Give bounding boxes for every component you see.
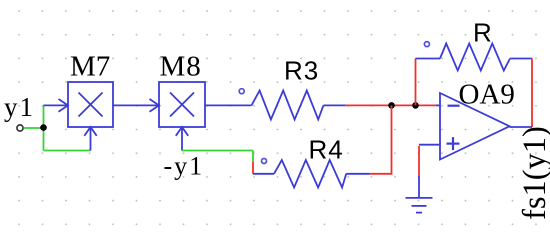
svg-text:y1: y1 — [4, 92, 35, 122]
node -y1 label — [164, 152, 205, 181]
wire junction up to M7 input level (green) — [43, 105, 45, 150]
resistor R label — [473, 18, 492, 48]
svg-text:R: R — [473, 18, 492, 48]
svg-text:R4: R4 — [309, 135, 344, 165]
junction dot at y1 — [40, 124, 47, 131]
op-amp OA9 triangle — [440, 93, 510, 160]
wire M8 output (blue) — [205, 104, 252, 106]
node y1 terminal — [17, 125, 23, 131]
wire R3 to junction (blue then red) — [323, 104, 440, 106]
wire y1 terminal to junction (green) — [24, 127, 44, 129]
node circle at R input — [424, 42, 429, 47]
wire into R (blue) — [416, 58, 441, 60]
node fs1(y1) label — [517, 126, 550, 220]
wire M7 output to M8 input (blue) — [113, 99, 159, 112]
wire feedback branch up (red) — [415, 59, 417, 106]
junction dot at feedback branch — [412, 102, 419, 109]
resistor R4 label — [309, 135, 344, 165]
resistor R (feedback) — [440, 44, 510, 71]
wire into R4 (blue) — [253, 173, 274, 175]
multiplier M7 label — [70, 51, 110, 83]
resistor R4 — [274, 160, 346, 188]
node circle at R3 input — [239, 89, 244, 94]
svg-text:fs1(y1): fs1(y1) — [517, 126, 550, 220]
M7 lower input pin arrow (bottom) — [84, 127, 96, 151]
junction dot left of op-amp — [388, 102, 395, 109]
resistor R3 label — [284, 56, 319, 86]
wire op-amp + input to ground (blue stub) — [419, 144, 440, 146]
ground — [406, 176, 433, 213]
wire -y1 branch down (green then red) — [252, 151, 254, 174]
svg-text:-y1: -y1 — [164, 152, 205, 181]
op-amp OA9 label — [459, 79, 515, 111]
node circle at R4 input — [262, 159, 267, 164]
multiplier M8 label — [160, 51, 202, 83]
wire R4 to junction (blue then red, up) — [346, 105, 391, 173]
resistor R3 — [252, 91, 324, 120]
wire M8 lower input to R4 branch (green) — [182, 150, 253, 152]
op-amp output stub (blue) — [510, 126, 533, 128]
wire junction down and right to M7 lower input (green) — [44, 150, 91, 152]
M7 input pin arrow (left) — [44, 99, 69, 112]
wire R to output (blue then red, down) — [510, 59, 532, 128]
multiplier M8 box — [159, 82, 205, 127]
M8 lower input pin arrow (bottom) — [176, 127, 188, 151]
svg-text:M7: M7 — [70, 51, 110, 83]
wire + input down (red) — [418, 146, 420, 176]
multiplier M7 box — [68, 82, 113, 127]
svg-text:M8: M8 — [160, 51, 202, 83]
node y1 label — [4, 92, 35, 122]
svg-text:R3: R3 — [284, 56, 319, 86]
